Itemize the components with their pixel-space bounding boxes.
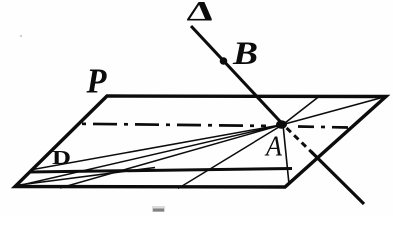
svg-text:B: B <box>232 36 258 72</box>
point B dot on Delta <box>220 57 228 65</box>
svg-text:D: D <box>52 147 71 169</box>
ink blob at node A <box>276 120 287 129</box>
wire: thin line A to bottom-left corner <box>15 125 283 187</box>
wire: thin line A to top-right corner <box>283 97 386 125</box>
svg-text:P: P <box>86 62 108 101</box>
dashed hidden part of Delta below plane <box>283 125 314 155</box>
wire: thin near-vertical line below A <box>283 125 289 185</box>
wire: thin line A to top edge <box>283 97 319 125</box>
wire: short diagonal from bottom-left corner merging into line D <box>15 168 155 186</box>
solid lower part of Delta outside plane <box>311 152 364 205</box>
dash-dot axis line through A, left part <box>82 124 266 126</box>
plane P parallelogram outline <box>15 96 386 187</box>
wire: thin line A to bottom edge middle <box>178 125 283 189</box>
svg-text:Δ: Δ <box>186 0 216 27</box>
wire: thin line A to bottom edge left <box>60 125 283 189</box>
line D in plane <box>29 169 292 173</box>
svg-text:A: A <box>264 131 282 163</box>
faint speck top-left <box>20 35 22 37</box>
line Delta from top to A <box>191 26 283 125</box>
wire: thin line A to left end of D <box>30 125 283 171</box>
dash-dot axis line through A, right part <box>298 127 349 128</box>
faint caption smudge below figure <box>152 206 165 212</box>
